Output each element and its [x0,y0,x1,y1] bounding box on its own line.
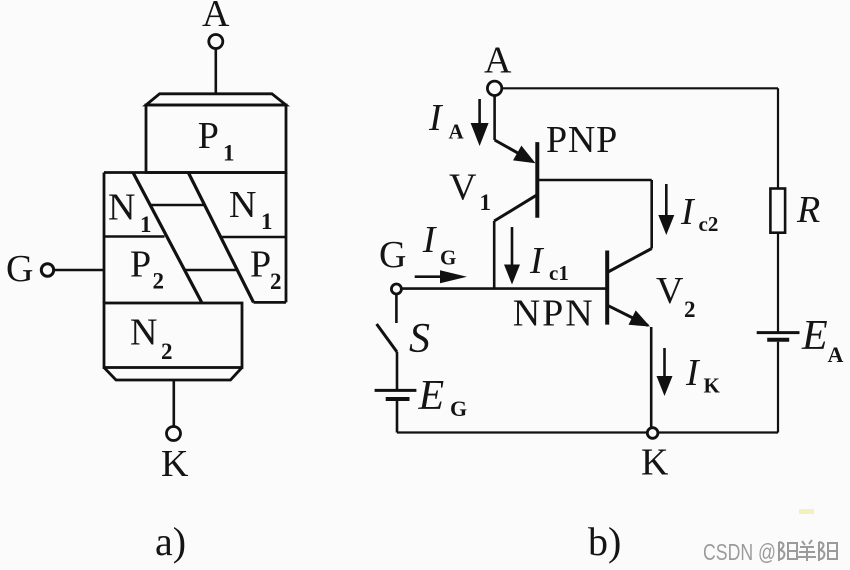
watermark hanzi yang1 [779,542,797,561]
wire A down [493,95,496,140]
svg-text:P: P [130,244,151,286]
svg-text:NPN: NPN [513,292,595,334]
svg-text:S: S [409,316,430,362]
svg-text:PNP: PNP [546,119,618,161]
svg-text:I: I [422,219,438,261]
wire switch to EG [396,352,399,390]
V1 base wire to right [539,179,652,182]
N2 region box [104,303,242,368]
switch S blade [377,324,397,352]
svg-text:1: 1 [140,212,152,237]
svg-text:P: P [250,244,271,286]
svg-text:G: G [440,246,456,270]
Ic1 current arrow [511,227,514,266]
watermark hanzi yang3 [819,542,837,561]
transistor V2 NPN base bar [605,251,609,325]
svg-text:K: K [704,374,721,398]
svg-text:I: I [428,97,444,139]
wire right side down to R [777,88,779,189]
IK current arrow [663,348,666,378]
terminal G circle (structure) [41,264,53,276]
svg-text:P: P [198,115,219,157]
wire down from base link [650,180,653,249]
IG current arrow [415,275,443,278]
wire V1 collector down to G line [493,221,496,289]
N1 middle divider segment [150,204,205,207]
terminal A circle (structure) [209,35,223,49]
G wire to NPN base [402,287,608,290]
svg-text:V: V [656,270,684,312]
wire N2 to K [173,380,176,427]
svg-text:R: R [796,189,820,231]
wire R to EA [777,233,779,333]
horizontal line under P1 [104,171,286,174]
wire V2 emitter down to K [650,327,653,428]
V2 emitter lead with arrow [607,305,648,325]
svg-text:b): b) [588,519,621,564]
svg-text:A: A [202,0,230,35]
V1 emitter lead with arrow [495,140,532,161]
svg-text:I: I [680,191,696,233]
wire A to P1 [215,49,218,95]
svg-text:K: K [161,443,189,485]
wire G to P2 [55,269,105,272]
diagonal 1 [133,173,202,304]
right column bottom edge [254,301,287,304]
terminal G circle (circuit) [391,284,401,294]
terminal K circle (circuit) [647,428,658,439]
svg-text:N: N [229,184,256,226]
watermark hanzi yang2 [798,540,816,561]
svg-text:c2: c2 [699,212,719,236]
switch wire stub from G [395,294,398,323]
bottom wire [397,431,778,433]
svg-text:I: I [529,240,545,282]
svg-text:A: A [828,342,844,367]
svg-text:E: E [801,313,828,359]
svg-text:a): a) [155,519,186,564]
right N1/P2 divider [221,236,287,238]
battery EA long plate [757,331,800,334]
wire A to R (top) [502,87,778,89]
svg-text:CSDN @: CSDN @ [703,539,776,565]
svg-text:N: N [108,187,135,229]
battery EG short plate [386,397,410,401]
N2 bottom face [104,368,242,381]
svg-text:K: K [641,442,669,484]
wire EG to bottom [396,401,399,433]
svg-text:2: 2 [270,269,282,294]
svg-text:E: E [418,373,445,419]
svg-text:I: I [685,352,701,394]
terminal A circle (circuit) [487,81,501,95]
svg-text:1: 1 [480,190,492,215]
wire EA to bottom [777,342,779,433]
watermark highlight smudge [799,509,814,514]
V1 collector lead [494,195,537,221]
left N1/P2 divider [104,235,165,237]
svg-text:2: 2 [684,297,696,322]
transistor V1 PNP base bar [535,142,539,218]
svg-text:2: 2 [161,339,173,364]
battery EA short plate [767,338,789,342]
svg-text:1: 1 [261,209,273,234]
diagonal 2 [188,173,253,303]
P1 region box [146,105,286,173]
IA current arrow [478,99,481,128]
P1 top face [146,94,286,105]
terminal K circle (structure) [167,427,181,441]
battery EG long plate [375,389,417,392]
svg-text:A: A [449,120,465,144]
svg-text:2: 2 [153,269,165,294]
P2 middle divider segment [184,269,238,272]
svg-text:A: A [484,39,512,81]
V2 collector lead [608,249,652,273]
Ic2 current arrow [665,184,668,216]
svg-text:G: G [379,234,406,276]
resistor R [770,189,785,233]
svg-text:N: N [130,312,157,354]
left column left edge [103,173,106,304]
svg-text:G: G [450,396,467,421]
svg-text:V: V [449,167,477,209]
right column right edge [285,173,288,303]
svg-text:c1: c1 [549,261,569,285]
svg-text:1: 1 [223,141,235,166]
svg-text:G: G [6,248,33,290]
